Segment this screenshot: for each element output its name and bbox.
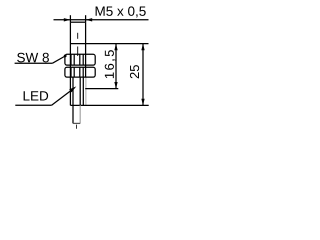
centerline dash head (77, 33, 79, 39)
dimension line 16,5 (115, 44, 117, 89)
nut2 facet line a (70, 67, 72, 77)
LED leader (52, 88, 74, 105)
arrowhead 25 bottom pointing down (141, 99, 144, 106)
extension line top left (69, 15, 71, 22)
nut1 facet line b (73, 54, 75, 65)
LED leader arrowhead (69, 86, 76, 92)
LED underline (15, 104, 51, 106)
label LED (24, 91, 49, 100)
housing bottom face + extension line 25 bottom (70, 104, 148, 106)
nut2 facet line c (79, 67, 81, 77)
cable stub bottom (73, 122, 80, 124)
SW 8 leader dot (64, 55, 67, 58)
centerline dash thread (77, 47, 79, 57)
dimension text 16,5 (105, 50, 116, 78)
arrowhead top dim right pointing left (86, 18, 93, 21)
arrowhead 25 top pointing up (141, 44, 144, 51)
hex nut lower outline (65, 67, 95, 77)
hex nut SW8 upper outline (65, 54, 95, 65)
barrel left edge (69, 22, 71, 105)
SW 8 underline (15, 62, 53, 64)
nut1 facet line c (79, 54, 81, 65)
arrowhead top dim left pointing right (64, 18, 71, 21)
nut1 facet line d (82, 54, 84, 65)
arrowhead 16,5 bottom pointing down (114, 82, 117, 89)
rear housing line left (72, 77, 74, 105)
centerline tick below stub (76, 125, 78, 129)
SW 8 leader (52, 56, 65, 63)
cable stub left (72, 105, 74, 123)
label SW 8 (17, 53, 49, 63)
barrel right edge (85, 22, 87, 77)
rear housing line mid (79, 77, 81, 105)
rear housing line right (82, 77, 84, 105)
arrowhead 16,5 top pointing up (114, 44, 117, 51)
nut1 facet line a (70, 54, 72, 65)
dimension line M5 thread width (top) (54, 19, 149, 21)
barrel right edge lower light (85, 77, 87, 105)
nut2 facet line d (82, 67, 84, 77)
nut2 facet line b (73, 67, 75, 77)
extension line top right (85, 15, 87, 22)
label M5 x 0,5 (96, 6, 146, 17)
cable stub right (79, 105, 81, 123)
extension line 16,5 bottom (85, 88, 118, 90)
dimension line 25 (142, 44, 144, 106)
head-thread boundary + extension line 16,5/25 top (70, 43, 148, 45)
dimension text 25 (130, 65, 139, 78)
sensor top face (70, 21, 85, 23)
